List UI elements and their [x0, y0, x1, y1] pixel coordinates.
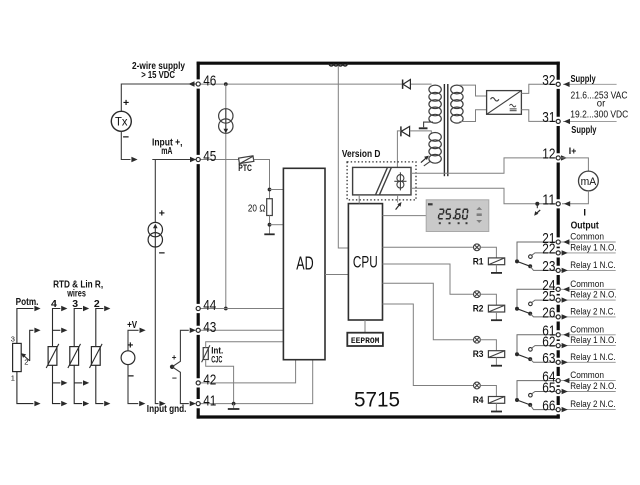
node ground junction 41	[232, 402, 236, 406]
supply label 31	[563, 120, 617, 122]
relay coil R4	[488, 397, 504, 404]
svg-text:63: 63	[542, 351, 555, 367]
wire Common terminal row	[561, 241, 616, 243]
ground below coil R3	[495, 358, 497, 366]
terminal 44	[196, 306, 200, 310]
svg-text:mA: mA	[581, 176, 597, 188]
wire terminal 44 to AD	[200, 308, 284, 310]
node junction above 20ohm	[268, 188, 272, 192]
relay coil R1	[488, 258, 504, 265]
wire mA meter to 11	[562, 191, 588, 204]
wire lamp to coil R1	[480, 247, 496, 258]
wire D2 anode to lower winding	[410, 131, 432, 134]
Version D dashed enclosure	[347, 162, 416, 200]
terminal 31	[556, 119, 560, 123]
svg-text:+V: +V	[127, 320, 137, 331]
current source CS2 (input)	[148, 222, 162, 247]
wire RTD 4-wire bottom	[53, 365, 61, 403]
terminal 26	[556, 315, 560, 319]
wire Common terminal row	[561, 380, 616, 382]
mA meter	[579, 171, 599, 191]
wire probe to 41	[172, 367, 189, 404]
choke on top border	[329, 63, 347, 66]
wire Relay 2 N.C. terminal row	[561, 316, 616, 318]
ground below coil R1	[495, 265, 497, 273]
wire common R4	[517, 381, 557, 400]
svg-text:Tx: Tx	[115, 117, 128, 129]
svg-text:12: 12	[542, 147, 555, 163]
svg-text:66: 66	[542, 398, 555, 414]
transmitter Tx	[111, 111, 131, 131]
wire 12 to mA meter	[561, 158, 588, 171]
N.C. contact node R2	[528, 312, 532, 316]
wire from choke down to CPU	[338, 66, 348, 248]
switch lever R3	[517, 354, 530, 359]
wire terminal 42 to AD bottom	[200, 360, 296, 383]
wire lamp to coil R3	[480, 340, 496, 351]
svg-text:Output: Output	[571, 220, 600, 231]
svg-text:mA: mA	[161, 146, 172, 157]
lamp R3	[474, 336, 481, 343]
svg-text:31: 31	[542, 110, 555, 126]
svg-text:22: 22	[542, 242, 555, 258]
wire Common terminal row	[561, 334, 616, 336]
svg-text:Relay 1 N.O.: Relay 1 N.O.	[570, 335, 616, 346]
N.C. contact node R4	[528, 403, 532, 407]
wire +V to 43 row arrow	[128, 330, 139, 351]
potm wiper arrow	[24, 356, 29, 361]
svg-text:R1: R1	[473, 256, 484, 267]
wire current source chain down to 44	[225, 84, 227, 308]
wire Relay 1 N.C. terminal row	[561, 269, 616, 271]
diode D1 (supply line)	[403, 80, 411, 89]
terminal 63	[556, 360, 560, 364]
transformer T1 core	[443, 84, 445, 176]
wire RTD 4-wire tap to 42 row	[53, 382, 61, 384]
terminal 64	[556, 379, 560, 383]
svg-text:41: 41	[203, 393, 216, 409]
voltage source V	[121, 351, 135, 365]
transformer T1 lower primary winding	[429, 133, 441, 164]
wire N.O. contact to terminal	[532, 300, 557, 303]
terminal 66	[556, 408, 560, 412]
arrow at terminal 46	[188, 81, 194, 86]
arrow input source to gnd row	[159, 401, 165, 406]
svg-text:20 Ω: 20 Ω	[248, 203, 266, 214]
terminal 62	[556, 344, 560, 348]
AD converter block U-AD	[283, 168, 325, 359]
Version D isolated output block	[353, 167, 411, 195]
wire common R1	[517, 242, 557, 261]
arrow option select (Version D)	[396, 202, 402, 210]
wire RTD 4-wire tap to 43 row	[53, 329, 61, 331]
arrow option select (output 11)	[534, 205, 540, 216]
wire N.C. contact to terminal	[530, 359, 557, 362]
wire CJC bottom to ground node	[206, 360, 234, 404]
transformer T1 secondary winding	[451, 85, 463, 123]
N.O. contact R3	[529, 348, 533, 352]
wire Relay 2 N.O. terminal row	[561, 299, 616, 301]
wire node to AD	[270, 189, 284, 191]
switch lever R2	[517, 309, 530, 314]
wire Relay 1 N.O. terminal row	[561, 252, 616, 254]
switch pivot node R3	[515, 352, 519, 356]
wire Relay 2 N.O. terminal row	[561, 391, 616, 393]
svg-text:Common: Common	[570, 370, 604, 381]
transformer T1 upper primary winding	[429, 85, 441, 123]
svg-text:+: +	[159, 207, 165, 219]
RTD 4-wire sensor column	[48, 347, 57, 366]
svg-text:PTC: PTC	[238, 163, 252, 173]
svg-text:26: 26	[542, 306, 555, 322]
wire RTD 2-wire bottom	[96, 365, 104, 403]
wire upper primary exit to shield plate	[424, 122, 433, 127]
terminal 61	[556, 333, 560, 337]
N.C. contact node R3	[528, 357, 532, 361]
wire N.O. contact to terminal	[532, 392, 557, 394]
probe node (mV input)	[170, 365, 174, 369]
svg-text:5715: 5715	[354, 389, 400, 412]
terminal 42	[196, 381, 200, 385]
wire CPU to EEPROM	[364, 320, 366, 333]
wire AD to CPU	[325, 274, 348, 276]
terminal 22	[556, 251, 560, 255]
terminal 12	[556, 156, 560, 160]
wire lamp to coil R4	[480, 386, 496, 397]
display module	[426, 200, 489, 232]
shield plate	[419, 127, 428, 129]
terminal 46	[196, 82, 200, 86]
N.C. contact node R1	[528, 264, 532, 268]
supply label 32	[563, 83, 617, 85]
svg-text:65: 65	[542, 380, 555, 396]
svg-text:Supply: Supply	[571, 125, 597, 136]
wire N.C. contact to terminal	[530, 266, 557, 270]
wire Relay 1 N.C. terminal row	[561, 361, 616, 363]
switch lever R4	[517, 400, 530, 405]
svg-text:−: −	[123, 132, 129, 144]
svg-text:Input gnd.: Input gnd.	[147, 404, 187, 415]
ground below coil R2	[495, 312, 497, 320]
wire V source to 41 row arrow	[128, 365, 138, 404]
wire common R3	[517, 335, 557, 354]
device outer box: top border	[197, 62, 560, 65]
N.O. contact R1	[529, 255, 533, 259]
wire CPU to lamp R2	[383, 264, 474, 294]
svg-text:Supply: Supply	[571, 74, 597, 85]
wire N.O. contact to terminal	[532, 253, 557, 255]
svg-text:or: or	[597, 99, 606, 110]
svg-text:AD: AD	[296, 254, 313, 274]
svg-text:45: 45	[203, 149, 216, 165]
arrow Tx minus	[131, 157, 137, 162]
device outer box: right border (gaps at terminals)	[557, 62, 560, 419]
wire node to AD	[270, 224, 284, 226]
wire terminal 45 to PTC	[200, 159, 239, 161]
node junction on 44 wire	[224, 307, 228, 311]
svg-text:32: 32	[542, 73, 555, 89]
arrow out of terminal 12	[561, 155, 567, 160]
wire secondary bottom to AC/DC	[460, 110, 487, 122]
wire AC/DC to terminal 32	[521, 84, 556, 93]
svg-text:Relay 1 N.O.: Relay 1 N.O.	[570, 243, 616, 254]
svg-text:+: +	[127, 340, 133, 352]
terminal 24	[556, 287, 560, 291]
CPU block U-CPU	[348, 204, 382, 320]
wire common R2	[517, 289, 557, 308]
svg-text:Common: Common	[570, 232, 604, 243]
wire Tx to terminal 46	[121, 84, 195, 111]
wire below 20ohm	[269, 216, 271, 234]
wire CPU to lamp R3	[383, 283, 474, 339]
relay coil R3	[488, 351, 504, 358]
wire N.C. contact to terminal	[530, 314, 557, 317]
svg-text:46: 46	[203, 74, 216, 90]
wire potm bottom to 41 row	[17, 372, 34, 404]
wire potm top to 44 row	[17, 309, 34, 344]
wire N.C. contact to terminal	[530, 405, 557, 410]
svg-text:Relay 1 N.C.: Relay 1 N.C.	[570, 352, 616, 363]
lamp R1	[474, 244, 481, 251]
wire RTD 3-wire tap to 42 row	[74, 382, 82, 384]
wire CPU to lamp R4	[383, 304, 474, 386]
svg-text:19.2...300 VDC: 19.2...300 VDC	[570, 109, 628, 120]
terminal 25	[556, 298, 560, 302]
terminal 43	[196, 328, 200, 332]
wire probe to 43	[172, 330, 189, 367]
svg-text:Common: Common	[570, 324, 604, 335]
wire lamp to coil R2	[480, 294, 496, 305]
svg-text:43: 43	[203, 320, 216, 336]
node junction below 20ohm	[268, 223, 272, 227]
wire mA input to terminal 45	[152, 159, 195, 161]
svg-text:42: 42	[203, 373, 216, 389]
svg-text:44: 44	[203, 298, 216, 314]
lamp R4	[474, 382, 481, 389]
svg-text:3: 3	[11, 334, 15, 343]
N.O. contact R4	[529, 393, 533, 397]
switch lever R1	[517, 261, 530, 266]
terminal 65	[556, 389, 560, 393]
EEPROM block	[347, 333, 383, 346]
svg-text:Common: Common	[570, 279, 604, 290]
diode D2 (version D winding)	[401, 126, 410, 136]
wire Version D bottom stub	[397, 195, 399, 203]
wire RTD 2-wire top	[96, 309, 104, 347]
svg-text:I+: I+	[569, 146, 577, 157]
wire Common terminal row	[561, 288, 616, 290]
internal CJC sensor	[202, 345, 210, 362]
N.O. contact R2	[529, 302, 533, 306]
wire terminal 41 to AD bottom	[200, 360, 313, 404]
svg-text:11: 11	[542, 193, 555, 209]
wire AC/DC to terminal 31	[521, 110, 556, 122]
wire lower winding exit tap	[424, 161, 431, 166]
relay coil R2	[488, 305, 504, 312]
svg-text:CPU: CPU	[353, 253, 378, 271]
svg-text:R2: R2	[473, 304, 484, 315]
wire N.O. contact to terminal	[532, 346, 557, 349]
terminal 23	[556, 268, 560, 272]
wire PTC to 20ohm node	[254, 160, 270, 199]
svg-text:1: 1	[11, 373, 15, 382]
isolation barrier diagonals	[376, 167, 388, 195]
arrow at terminal 45	[190, 157, 196, 162]
terminal 45	[196, 157, 200, 161]
wire CPU to lamp R1	[383, 246, 474, 248]
svg-text:62: 62	[542, 334, 555, 350]
ground below coil R4	[495, 403, 497, 411]
current source CS1 (supply)	[219, 109, 233, 134]
svg-text:25: 25	[542, 289, 555, 305]
wire RTD 3-wire top	[74, 309, 82, 347]
svg-text:> 15 VDC: > 15 VDC	[141, 70, 175, 81]
RTD 2-wire sensor column	[91, 347, 100, 366]
svg-text:−: −	[128, 370, 134, 382]
wire 46 horizontal (to transformer)	[200, 83, 432, 85]
wire input source chain	[155, 160, 158, 404]
terminal 41	[196, 402, 200, 406]
switch pivot node R1	[515, 259, 519, 263]
wire CJC top to AD	[206, 342, 284, 348]
RTD 3-wire sensor column	[70, 347, 79, 366]
PTC thermistor	[239, 156, 254, 165]
svg-text:−: −	[159, 247, 165, 259]
wire Version D upper output to terminal 12	[411, 158, 557, 173]
wire CPU to display	[383, 215, 427, 217]
svg-text:CJC: CJC	[211, 355, 222, 366]
svg-text:Relay 2 N.O.: Relay 2 N.O.	[570, 381, 616, 392]
AC/DC converter block	[487, 91, 522, 115]
potentiometer symbol	[13, 343, 22, 371]
svg-text:+: +	[123, 97, 129, 109]
svg-text:Relay 2 N.O.: Relay 2 N.O.	[570, 290, 616, 301]
arrow tap select (transformer)	[421, 156, 429, 163]
wire Relay 1 N.O. terminal row	[561, 345, 616, 347]
switch pivot node R4	[515, 398, 519, 402]
svg-text:R3: R3	[473, 349, 484, 360]
resistor 20 ohm	[267, 199, 273, 216]
wire Tx minus	[121, 131, 130, 159]
wire Version D lower output to terminal 11	[411, 188, 557, 204]
svg-text:Version D: Version D	[342, 149, 381, 160]
svg-text:−: −	[172, 373, 177, 383]
device outer box: bottom border	[197, 415, 560, 418]
modulator symbol in Version D	[394, 172, 406, 190]
wire RTD 3-wire bottom	[74, 365, 82, 403]
wire RTD 4-wire top	[53, 309, 61, 347]
ground at 41 node	[233, 404, 235, 409]
terminal 32	[556, 82, 560, 86]
device outer box: left border (gaps at terminals)	[197, 62, 200, 419]
wire Version D to CPU	[358, 195, 360, 204]
wire potm wiper to 43 row	[30, 330, 34, 361]
terminal 11	[556, 202, 560, 206]
svg-text:23: 23	[542, 259, 555, 275]
switch pivot node R2	[515, 307, 519, 311]
svg-text:Relay 2 N.C.: Relay 2 N.C.	[570, 307, 616, 318]
svg-text:R4: R4	[473, 395, 484, 406]
wire D2 cathode down to Version D block	[397, 131, 401, 168]
wire Relay 2 N.C. terminal row	[561, 409, 616, 411]
wire secondary top to AC/DC	[460, 85, 487, 96]
svg-text:Relay 2 N.C.: Relay 2 N.C.	[570, 399, 616, 410]
svg-text:+: +	[172, 353, 177, 362]
svg-text:I: I	[583, 208, 586, 219]
svg-text:Relay 1 N.C.: Relay 1 N.C.	[570, 260, 616, 271]
lamp R2	[474, 291, 481, 298]
terminal 21	[556, 240, 560, 244]
node junction on 46 wire	[224, 82, 228, 86]
svg-text:EEPROM: EEPROM	[351, 337, 380, 346]
ground below 20ohm	[264, 233, 274, 235]
arrow into terminal 11	[564, 201, 570, 206]
node on wire to 11	[535, 202, 539, 206]
wire terminal 43 to AD	[200, 329, 284, 331]
